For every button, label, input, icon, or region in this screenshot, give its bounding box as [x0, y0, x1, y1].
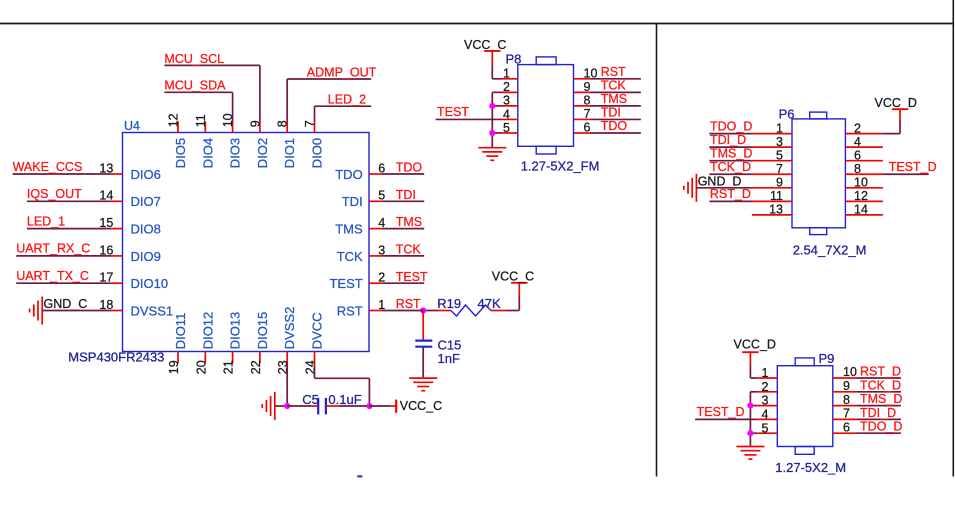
- wire net TDO_D (P6): [709, 119, 752, 133]
- P9 pin 8 net TMS_D: [833, 392, 903, 407]
- power VCC_D (P9): [734, 338, 776, 364]
- wire net RST_D (P6 pin 11): [709, 187, 752, 201]
- svg-text:TDI: TDI: [601, 105, 621, 119]
- svg-text:RST: RST: [396, 297, 421, 311]
- svg-text:DIO15: DIO15: [255, 312, 270, 350]
- svg-text:TCK_D: TCK_D: [710, 160, 751, 174]
- svg-text:TDI_D: TDI_D: [710, 133, 746, 147]
- svg-text:DVSS1: DVSS1: [131, 303, 174, 318]
- svg-text:MCU_SDA: MCU_SDA: [164, 79, 226, 93]
- P8 ground bus (pins 2,3,5): [492, 92, 501, 147]
- svg-text:4: 4: [854, 135, 861, 149]
- svg-text:2: 2: [762, 380, 769, 394]
- svg-text:1: 1: [503, 67, 510, 81]
- P8 pin 2: [502, 80, 518, 94]
- svg-text:TEST: TEST: [396, 270, 428, 284]
- connector P9 body: [777, 358, 833, 454]
- wire net IQS_OUT: [27, 187, 111, 201]
- junction P8 pin 3: [489, 103, 495, 109]
- U4 pin 3 (TCK): [337, 243, 386, 263]
- P6 pin 5: [752, 149, 792, 163]
- svg-text:TDO_D: TDO_D: [860, 420, 902, 434]
- svg-text:12: 12: [854, 189, 868, 203]
- svg-text:VCC_C: VCC_C: [400, 399, 442, 413]
- wire ground to junction: [275, 405, 287, 407]
- svg-text:14: 14: [854, 203, 868, 217]
- resistor R19: [437, 296, 506, 316]
- svg-text:22: 22: [249, 360, 263, 374]
- U4 pin 9 (DIO2): [248, 120, 270, 168]
- svg-text:8: 8: [843, 393, 850, 407]
- wire net LED_1: [27, 214, 111, 228]
- wire pin 24 DVCC to junction: [315, 364, 370, 407]
- P6 pin 14: [845, 203, 883, 217]
- svg-text:TCK: TCK: [396, 243, 422, 257]
- P9 pin 3: [757, 394, 777, 408]
- power port VCC_C (C5): [390, 399, 442, 413]
- svg-text:VCC_C: VCC_C: [464, 38, 506, 52]
- svg-text:5: 5: [776, 149, 783, 163]
- P6 pin 12: [845, 189, 883, 203]
- U4 pin 5 (TDI): [342, 189, 385, 210]
- U4 value MSP430FR2433: [68, 350, 164, 365]
- ground (P9): [736, 447, 764, 460]
- power VCC_D (P6): [875, 96, 917, 121]
- junction DVCC/C5: [366, 403, 390, 409]
- svg-text:TMS_D: TMS_D: [860, 392, 902, 406]
- P6 pin 3: [752, 135, 792, 149]
- svg-text:3: 3: [762, 394, 769, 408]
- svg-text:GND_C: GND_C: [44, 297, 88, 311]
- wire net TEST_D (P9 pin 4): [695, 405, 757, 419]
- svg-text:TEST_D: TEST_D: [697, 405, 745, 419]
- svg-text:VCC_D: VCC_D: [875, 96, 917, 110]
- svg-text:VCC_D: VCC_D: [734, 338, 776, 352]
- svg-text:11: 11: [770, 189, 783, 203]
- U4 pin 7 (DIO0): [303, 120, 325, 168]
- U4 pin 17 (DIO10): [99, 271, 168, 292]
- svg-text:2: 2: [503, 80, 510, 94]
- svg-text:TDO: TDO: [601, 119, 628, 133]
- P6 pin 6: [845, 149, 883, 163]
- P9 pin 4: [757, 408, 777, 422]
- junction P8 pin 5: [489, 130, 495, 136]
- svg-text:TMS: TMS: [601, 92, 627, 106]
- svg-text:TDI: TDI: [342, 194, 363, 209]
- U4 pin 23 (DVSS2): [276, 307, 297, 375]
- wire GND_C to pin 18: [42, 310, 111, 312]
- wire net TCK_D (P6): [709, 160, 752, 174]
- svg-text:LED_2: LED_2: [328, 93, 366, 107]
- svg-text:20: 20: [194, 360, 208, 374]
- svg-text:1nF: 1nF: [438, 351, 460, 366]
- P8 pin 9 net TCK: [574, 78, 641, 94]
- wire R19 to VCC_C: [506, 283, 519, 311]
- svg-text:TDI_D: TDI_D: [860, 406, 896, 420]
- P8 pin 3: [502, 94, 518, 108]
- U4 pin 21 (DIO13): [222, 312, 243, 374]
- U4 pin 22 (DIO15): [249, 312, 270, 374]
- ground port GND_C: [30, 297, 88, 325]
- svg-text:3: 3: [503, 94, 510, 108]
- P9 pin 5: [757, 421, 777, 435]
- P8 pin 4: [502, 107, 518, 121]
- svg-text:1.27-5X2_M: 1.27-5X2_M: [775, 460, 846, 475]
- svg-text:RST: RST: [337, 303, 363, 318]
- svg-text:WAKE_CCS: WAKE_CCS: [13, 160, 83, 174]
- U4 pin 14 (DIO7): [99, 189, 160, 210]
- P9 pin 2: [757, 380, 777, 394]
- IC U4 body: [123, 133, 370, 352]
- P8 pin 5: [502, 121, 518, 135]
- svg-text:R19: R19: [437, 296, 461, 311]
- svg-text:P6: P6: [779, 107, 795, 122]
- U4 pin 8 (DIO1): [276, 120, 298, 168]
- svg-text:MSP430FR2433: MSP430FR2433: [68, 350, 164, 365]
- svg-text:8: 8: [584, 93, 591, 107]
- svg-text:ADMP_OUT: ADMP_OUT: [307, 66, 377, 80]
- P8 pin 7 net TDI: [574, 105, 641, 121]
- wire net RST (U4): [382, 310, 424, 312]
- P8 designator: [506, 51, 522, 66]
- svg-text:TCK: TCK: [337, 249, 363, 264]
- wire net MCU_SCL: [164, 52, 260, 122]
- P6 pin 10: [845, 176, 883, 190]
- svg-text:DIO6: DIO6: [131, 167, 161, 182]
- power VCC_C (R19): [492, 270, 534, 284]
- svg-text:DIO3: DIO3: [228, 138, 243, 168]
- svg-text:DIO1: DIO1: [282, 138, 297, 168]
- svg-text:LED_1: LED_1: [27, 214, 65, 228]
- svg-text:TDO_D: TDO_D: [710, 119, 752, 133]
- svg-text:MCU_SCL: MCU_SCL: [164, 52, 224, 66]
- U4 pin 13 (DIO6): [99, 161, 160, 182]
- svg-text:TDO: TDO: [396, 161, 423, 175]
- svg-text:DIO11: DIO11: [173, 313, 188, 350]
- U4 pin 4 (TMS): [335, 216, 385, 237]
- ground port GND_D (P6): [684, 174, 742, 202]
- P6 pin 7: [752, 162, 792, 176]
- svg-text:12: 12: [167, 113, 181, 127]
- P6 pin 4: [845, 135, 883, 149]
- P6 pin 2: [845, 121, 883, 135]
- P8 pin 10 net RST: [574, 65, 641, 81]
- svg-text:DIO8: DIO8: [131, 222, 161, 237]
- svg-text:11: 11: [194, 114, 208, 127]
- svg-text:0.1uF: 0.1uF: [328, 392, 361, 407]
- P8 pin 8 net TMS: [574, 92, 641, 108]
- svg-text:P8: P8: [506, 51, 522, 66]
- svg-text:3: 3: [776, 135, 783, 149]
- svg-text:2.54_7X2_M: 2.54_7X2_M: [793, 243, 867, 258]
- svg-text:6: 6: [584, 121, 591, 135]
- capacitor C5: [302, 392, 369, 415]
- svg-text:4: 4: [503, 107, 510, 121]
- svg-text:7: 7: [776, 162, 783, 176]
- svg-text:1: 1: [776, 121, 783, 135]
- svg-text:5: 5: [503, 121, 510, 135]
- junction RST node: [420, 307, 438, 313]
- svg-text:21: 21: [222, 360, 236, 374]
- U4 pin 10 (DIO3): [221, 113, 243, 168]
- net label RST (U4): [396, 297, 421, 311]
- P9 designator: [819, 351, 835, 366]
- wire VCC_D to P9 pin 1: [750, 364, 757, 378]
- P9 ground bus (pins 2,3,5): [750, 392, 757, 447]
- svg-text:TEST: TEST: [437, 105, 469, 119]
- svg-text:9: 9: [776, 176, 783, 190]
- wire net ADMP_OUT: [287, 66, 376, 122]
- ground (P8): [478, 148, 506, 161]
- svg-text:7: 7: [584, 107, 591, 121]
- P6 pin 9: [752, 176, 792, 190]
- junction P9 pin 3: [747, 403, 753, 409]
- svg-text:6: 6: [854, 149, 861, 163]
- junction P9 pin 5: [747, 430, 753, 436]
- wire net MCU_SDA: [164, 79, 232, 122]
- wire net RST to R19: [382, 161, 425, 175]
- P6 pin 11: [752, 189, 792, 203]
- svg-text:TDI: TDI: [396, 188, 416, 202]
- svg-text:13: 13: [769, 203, 783, 217]
- U4 pin 24 (DVCC): [304, 312, 325, 374]
- U4 pin 12 (DIO5): [167, 113, 189, 168]
- U4 pin 1 (RST): [337, 298, 386, 319]
- U4 pin 11 (DIO4): [194, 114, 216, 168]
- svg-text:DIO7: DIO7: [131, 194, 161, 209]
- svg-text:10: 10: [854, 176, 868, 190]
- capacitor C15: [415, 311, 461, 378]
- svg-text:10: 10: [584, 66, 598, 80]
- P6 designator: [779, 107, 795, 122]
- U4 pin 18 (DVSS1): [99, 298, 173, 319]
- U4 pin 20 (DIO12): [194, 312, 215, 374]
- svg-text:2: 2: [854, 121, 861, 135]
- junction DVSS2/C5: [284, 403, 312, 409]
- U4 pin 6 (TDO): [335, 161, 385, 182]
- P9 pin 1: [757, 366, 777, 380]
- P9 pin 6 net TDO_D: [833, 420, 903, 435]
- U4 designator: [124, 119, 140, 133]
- svg-text:19: 19: [167, 360, 181, 374]
- wire VCC_D to P6 pin 2: [883, 121, 900, 134]
- stray mark: [357, 475, 362, 477]
- svg-text:UART_TX_C: UART_TX_C: [16, 269, 89, 283]
- connector P8 body: [518, 57, 574, 154]
- P6 pin 1: [752, 121, 792, 135]
- svg-text:8: 8: [854, 162, 861, 176]
- svg-text:UART_RX_C: UART_RX_C: [16, 242, 90, 256]
- svg-text:IQS_OUT: IQS_OUT: [27, 187, 82, 201]
- ground (C15): [409, 378, 437, 391]
- wire net TDI (U4): [382, 188, 425, 202]
- svg-text:DVSS2: DVSS2: [282, 307, 297, 350]
- svg-text:DIO5: DIO5: [173, 138, 188, 168]
- P9 type 1.27-5X2_M: [775, 460, 846, 475]
- svg-text:RST: RST: [601, 65, 626, 79]
- wire net TMS (U4): [382, 215, 425, 229]
- svg-text:DIO2: DIO2: [255, 138, 270, 168]
- svg-text:RST_D: RST_D: [710, 187, 751, 201]
- svg-text:DIO4: DIO4: [200, 138, 215, 168]
- svg-text:TDO: TDO: [335, 167, 362, 182]
- svg-text:TEST: TEST: [329, 276, 362, 291]
- svg-text:9: 9: [843, 379, 850, 393]
- svg-text:DIO10: DIO10: [131, 276, 169, 291]
- wire net TDI_D (P6): [709, 133, 752, 147]
- svg-text:4: 4: [762, 408, 769, 422]
- svg-text:TMS: TMS: [396, 215, 422, 229]
- svg-text:1.27-5X2_FM: 1.27-5X2_FM: [521, 158, 600, 173]
- svg-text:TMS_D: TMS_D: [710, 147, 752, 161]
- svg-text:DVCC: DVCC: [310, 312, 325, 349]
- svg-text:TCK: TCK: [601, 78, 627, 92]
- svg-text:P9: P9: [819, 351, 835, 366]
- svg-text:47K: 47K: [478, 296, 501, 311]
- wire GND_D to P6 pin 9: [696, 187, 752, 189]
- svg-text:VCC_C: VCC_C: [492, 270, 534, 284]
- wire net UART_TX_C: [16, 269, 111, 283]
- P9 pin 9 net TCK_D: [833, 378, 901, 393]
- svg-text:9: 9: [584, 80, 591, 94]
- svg-text:DIO13: DIO13: [228, 312, 243, 350]
- svg-text:6: 6: [843, 420, 850, 434]
- wire pin 23 to ground node: [286, 364, 288, 407]
- svg-text:DIO9: DIO9: [131, 249, 161, 264]
- P6 pin 13: [752, 203, 792, 217]
- P8 pin 6 net TDO: [574, 119, 641, 135]
- U4 pin 19 (DIO11): [167, 313, 188, 375]
- connector P6 body: [792, 112, 845, 235]
- wire net WAKE_CCS: [13, 160, 111, 174]
- P8 type 1.27-5X2_FM: [521, 158, 600, 173]
- svg-text:U4: U4: [124, 119, 140, 133]
- wire net TEST (P8 pin 4): [436, 105, 502, 119]
- ground (DVSS2/C5): [262, 392, 275, 420]
- wire VCC_C to P8 pin 1: [492, 64, 501, 78]
- svg-text:RST_D: RST_D: [860, 365, 901, 379]
- wire net TEST (U4): [382, 270, 428, 284]
- svg-text:5: 5: [762, 421, 769, 435]
- wire net UART_RX_C: [16, 242, 111, 256]
- P6 type 2.54_7X2_M: [793, 243, 867, 258]
- U4 pin 15 (DIO8): [99, 216, 160, 237]
- svg-text:DIO12: DIO12: [200, 312, 215, 350]
- svg-text:7: 7: [843, 407, 850, 421]
- svg-text:24: 24: [304, 360, 318, 374]
- P9 pin 10 net RST_D: [833, 365, 901, 380]
- wire net TCK (U4): [382, 243, 425, 257]
- svg-text:TCK_D: TCK_D: [860, 378, 901, 392]
- wire net LED_2: [315, 93, 372, 122]
- svg-text:C5: C5: [302, 392, 319, 407]
- power VCC_C (P8): [464, 38, 506, 65]
- U4 pin 16 (DIO9): [99, 243, 160, 263]
- svg-text:TMS: TMS: [335, 222, 363, 237]
- U4 pin 2 (TEST): [329, 271, 385, 292]
- svg-text:1: 1: [762, 366, 769, 380]
- P9 pin 7 net TDI_D: [833, 406, 901, 421]
- svg-text:23: 23: [276, 360, 290, 374]
- svg-text:DIO0: DIO0: [310, 138, 325, 168]
- P6 pin 8: [845, 162, 883, 176]
- wire net TMS_D (P6): [709, 147, 752, 161]
- svg-text:TEST_D: TEST_D: [889, 160, 937, 174]
- svg-text:10: 10: [843, 365, 857, 379]
- P8 pin 1: [502, 67, 518, 81]
- wire net TEST_D (P6 pin 8): [883, 160, 937, 174]
